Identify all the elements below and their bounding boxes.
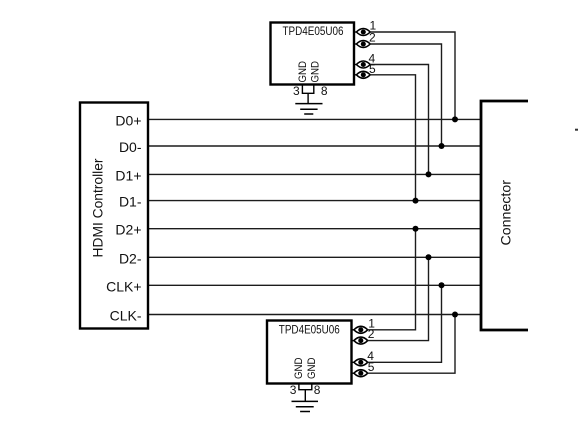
svg-text:D2-: D2- bbox=[119, 250, 142, 266]
U2 pin 5 channel diode bbox=[352, 370, 368, 377]
U1 pin 4 channel diode bbox=[354, 61, 370, 68]
wire D2+ bbox=[148, 228, 481, 230]
svg-text:Connector: Connector bbox=[498, 180, 514, 246]
wire D1- bbox=[148, 200, 481, 202]
ESD array U2 TPD4E05U06 (bottom) bbox=[267, 321, 352, 384]
wire U2 pin 2 to D2- bbox=[368, 257, 429, 340]
svg-text:CLK-: CLK- bbox=[110, 308, 142, 324]
wire U1 pins 3,8 bracket to ground bbox=[302, 85, 313, 104]
stray tick at right edge bbox=[575, 129, 578, 131]
svg-text:D0+: D0+ bbox=[115, 112, 141, 128]
wire U2 pins 3,8 bracket to ground bbox=[299, 384, 312, 402]
ground U1 bbox=[295, 104, 322, 114]
wire U1 pin 5 to D1- bbox=[370, 75, 415, 201]
svg-text:5: 5 bbox=[368, 360, 375, 374]
junction U1.1/D0+ bbox=[452, 116, 458, 122]
ground U2 bbox=[292, 401, 319, 411]
svg-text:8: 8 bbox=[321, 84, 328, 98]
wire U1 pin 2 to D0- bbox=[370, 44, 441, 146]
wire U1 pin 1 to D0+ bbox=[370, 32, 455, 119]
U1 pin 2 channel diode bbox=[354, 41, 370, 48]
wire CLK- bbox=[148, 314, 481, 316]
junction U2.4/CLK+ bbox=[439, 282, 445, 288]
junction U1.4/D1+ bbox=[426, 171, 432, 177]
wire D2- bbox=[148, 256, 481, 258]
svg-text:D1+: D1+ bbox=[115, 167, 141, 183]
svg-text:3: 3 bbox=[290, 383, 297, 397]
U1 pin 1 channel diode bbox=[354, 29, 370, 36]
svg-text:2: 2 bbox=[368, 327, 375, 341]
svg-text:5: 5 bbox=[369, 62, 376, 76]
wire U2 pin 4 to CLK+ bbox=[368, 285, 442, 362]
svg-text:GND: GND bbox=[297, 61, 309, 83]
junction U2.2/D2- bbox=[426, 254, 432, 260]
svg-text:GND: GND bbox=[293, 357, 305, 379]
wire D1+ bbox=[148, 173, 481, 175]
svg-text:GND: GND bbox=[306, 357, 318, 379]
svg-text:D1-: D1- bbox=[119, 194, 142, 210]
svg-text:D2+: D2+ bbox=[115, 222, 141, 238]
HDMI Controller block bbox=[80, 103, 148, 329]
svg-text:TPD4E05U06: TPD4E05U06 bbox=[283, 26, 344, 38]
junction U1.5/D1- bbox=[413, 198, 419, 204]
svg-text:GND: GND bbox=[310, 61, 322, 83]
wire U1 pin 4 to D1+ bbox=[370, 65, 428, 175]
Connector block bbox=[481, 101, 528, 330]
svg-text:TPD4E05U06: TPD4E05U06 bbox=[279, 325, 340, 337]
wire D0+ bbox=[148, 118, 481, 120]
svg-text:3: 3 bbox=[293, 84, 300, 98]
U2 pin 2 channel diode bbox=[352, 337, 368, 344]
wire D0- bbox=[148, 145, 481, 147]
svg-text:D0-: D0- bbox=[119, 139, 142, 155]
svg-text:2: 2 bbox=[369, 31, 376, 45]
U2 pin 1 channel diode bbox=[352, 326, 368, 333]
U1 pin 5 channel diode bbox=[354, 71, 370, 78]
wire CLK+ bbox=[148, 284, 481, 286]
svg-text:CLK+: CLK+ bbox=[106, 278, 141, 294]
svg-text:8: 8 bbox=[314, 383, 321, 397]
junction U2.1/D2+ bbox=[413, 226, 419, 232]
junction U2.5/CLK- bbox=[452, 312, 458, 318]
U2 pin 4 channel diode bbox=[352, 359, 368, 366]
ESD array U1 TPD4E05U06 (top) bbox=[271, 23, 355, 85]
wire U2 pin 1 to D2+ bbox=[368, 229, 416, 330]
svg-text:HDMI Controller: HDMI Controller bbox=[90, 158, 106, 257]
junction U1.2/D0- bbox=[439, 143, 445, 149]
wire U2 pin 5 to CLK- bbox=[368, 315, 455, 374]
